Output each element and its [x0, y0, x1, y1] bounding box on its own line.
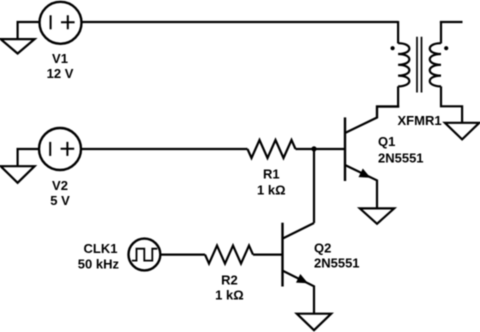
- transformer XFMR1 secondary winding: [430, 43, 441, 86]
- Q1 emitter arrow: [359, 169, 371, 178]
- svg-text:50 kHz: 50 kHz: [78, 257, 120, 272]
- wire CLK1 to R2: [160, 254, 205, 256]
- ground (Q2 emitter): [297, 314, 331, 331]
- svg-text:Q1: Q1: [378, 134, 395, 149]
- svg-text:R2: R2: [221, 273, 238, 288]
- transistor Q1 base bar: [344, 117, 346, 181]
- voltage source V2: [39, 128, 81, 170]
- CLK1 square wave glyph: [132, 249, 157, 261]
- svg-text:V2: V2: [52, 178, 68, 193]
- svg-text:XFMR1: XFMR1: [398, 113, 442, 128]
- svg-text:1 kΩ: 1 kΩ: [257, 183, 286, 198]
- clock source CLK1: [129, 239, 161, 271]
- wire V1 to ground: [18, 22, 40, 39]
- svg-text:12 V: 12 V: [47, 66, 74, 81]
- Q2 collector: [283, 223, 315, 239]
- svg-text:V1: V1: [52, 51, 68, 66]
- transformer XFMR1 primary stem top: [397, 21, 399, 43]
- Q2 emitter: [283, 271, 315, 314]
- wire secondary bottom to ground: [441, 86, 462, 122]
- node junction dot: [311, 146, 316, 151]
- V1 plus sign: [61, 15, 75, 29]
- wire V2 to R1: [81, 148, 248, 150]
- svg-text:Q2: Q2: [314, 240, 331, 255]
- transformer core: [417, 37, 422, 93]
- wire junction down to Q2 collector: [313, 149, 315, 223]
- wire V1 to transformer primary: [82, 21, 399, 23]
- transistor Q2 base bar: [281, 223, 283, 287]
- V1 minus terminal bar: [50, 15, 52, 29]
- transformer primary dot: [391, 46, 395, 50]
- ground (V2): [1, 166, 35, 183]
- wire secondary top stub: [440, 21, 463, 23]
- wire V2 to ground: [18, 149, 39, 166]
- svg-text:5 V: 5 V: [50, 193, 70, 208]
- ground (Q1 emitter): [360, 208, 394, 223]
- svg-text:2N5551: 2N5551: [378, 150, 424, 165]
- Q1 emitter: [345, 165, 377, 208]
- wire primary bottom to Q1 collector: [377, 86, 398, 118]
- transformer secondary dot: [444, 46, 448, 50]
- svg-text:CLK1: CLK1: [84, 241, 118, 256]
- secondary stem top: [440, 21, 442, 43]
- resistor R1: [248, 140, 296, 158]
- svg-text:2N5551: 2N5551: [314, 255, 360, 270]
- wire R2 to Q2 base: [253, 254, 283, 256]
- V2 plus sign: [61, 142, 75, 156]
- ground (V1): [1, 39, 35, 53]
- ground (XFMR1 secondary): [445, 123, 479, 140]
- Q2 emitter arrow: [296, 274, 308, 283]
- wire R1 to Q1 base: [296, 148, 346, 150]
- svg-text:1 kΩ: 1 kΩ: [215, 288, 244, 303]
- voltage source V1: [40, 2, 82, 44]
- V2 minus terminal bar: [49, 142, 51, 156]
- transformer XFMR1 primary winding: [398, 43, 409, 86]
- Q1 collector: [345, 107, 399, 134]
- resistor R2: [205, 246, 253, 264]
- svg-text:R1: R1: [263, 166, 280, 181]
